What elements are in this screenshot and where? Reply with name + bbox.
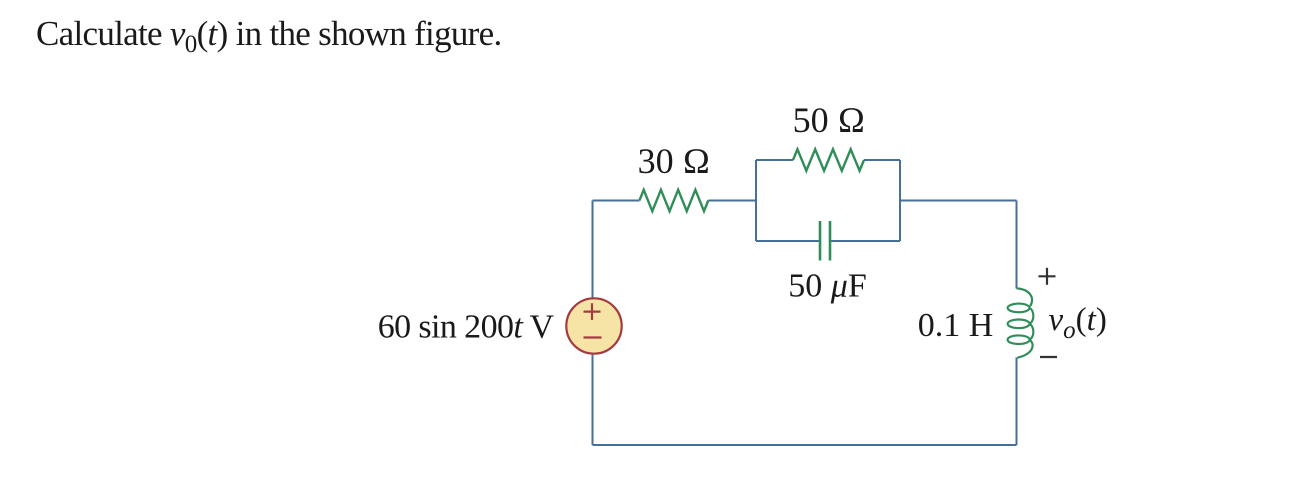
svg-text:50 Ω: 50 Ω [793,100,866,140]
svg-text:0.1 H: 0.1 H [918,307,994,344]
svg-text:60 sin 200t V: 60 sin 200t V [378,309,555,346]
svg-text:30 Ω: 30 Ω [638,141,711,181]
svg-text:vo(t): vo(t) [1049,302,1107,344]
svg-text:50 μF: 50 μF [788,268,867,305]
svg-text:Calculate v0(t) in the shown f: Calculate v0(t) in the shown figure. [36,14,502,58]
